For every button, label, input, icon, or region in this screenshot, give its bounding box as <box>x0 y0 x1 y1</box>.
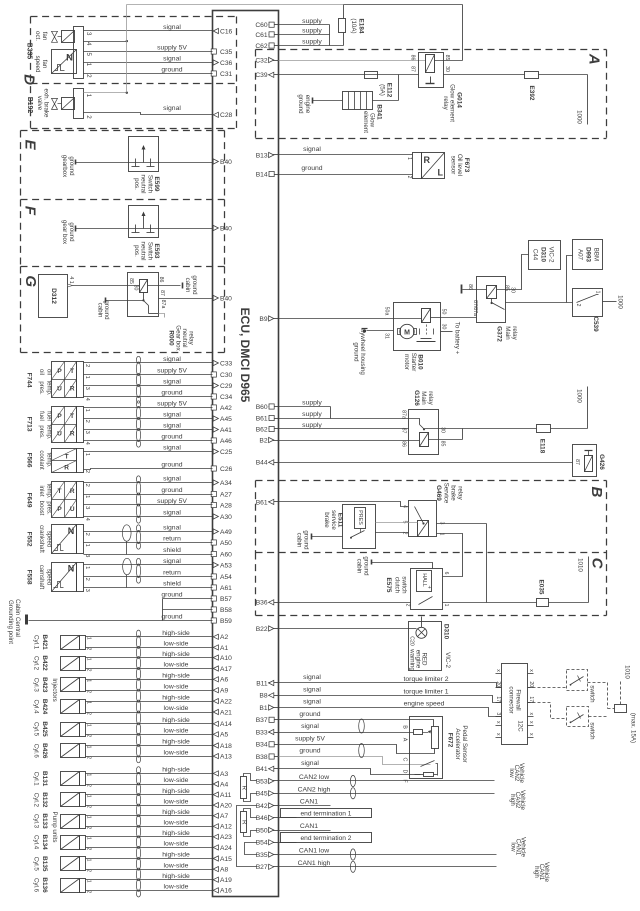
wires B423 high/low side <box>86 679 213 681</box>
svg-text:supply 5V: supply 5V <box>157 45 187 52</box>
svg-text:P: P <box>57 506 62 513</box>
wires F744 to ECU <box>84 362 213 364</box>
svg-text:1: 1 <box>443 604 449 607</box>
ECU pin B61 (right, y=418) <box>269 418 279 420</box>
svg-text:2: 2 <box>84 470 90 473</box>
twisted bundle marks injectors <box>136 630 140 637</box>
service brake relay G469 box <box>409 501 437 537</box>
svg-text:2: 2 <box>85 74 92 78</box>
bracket B42 down to B27 <box>237 806 257 867</box>
svg-text:ground: ground <box>299 711 320 718</box>
svg-text:ground: ground <box>297 94 304 114</box>
flywheel housing ground symbol <box>363 329 366 332</box>
ECU pin B1 (right, y=707.5) <box>269 707 279 709</box>
svg-text:2: 2 <box>84 484 90 487</box>
dashed wire pin20 to switch 1 <box>528 687 567 689</box>
svg-text:low: low <box>510 842 517 852</box>
wire B9 to B010 pin 50a <box>279 318 394 320</box>
svg-text:C29: C29 <box>220 383 233 390</box>
oil level sensor F673 box <box>422 153 445 179</box>
svg-text:A13: A13 <box>220 754 232 761</box>
fuse (max. 15A) <box>608 708 615 710</box>
svg-text:speed: speed <box>46 569 52 585</box>
ground gearbox symbol in box F <box>75 226 77 232</box>
F672 resistor <box>424 773 434 777</box>
wire E599 to B40 <box>159 162 213 164</box>
svg-text:ground: ground <box>68 222 75 242</box>
svg-text:x: x <box>495 669 501 672</box>
wires F713 to ECU <box>84 407 213 409</box>
svg-text:supply: supply <box>302 18 322 25</box>
svg-text:signal: signal <box>163 24 181 31</box>
svg-text:20: 20 <box>528 681 534 687</box>
cabin ground left of R000 <box>105 298 107 303</box>
svg-text:C35: C35 <box>220 49 233 56</box>
svg-text:85: 85 <box>444 55 450 61</box>
svg-text:T: T <box>70 368 74 375</box>
wire C539 pin1 to 1000 <box>603 301 617 303</box>
ECU pin B61 (right, y=501.9) <box>269 501 279 503</box>
svg-text:Service: Service <box>443 483 450 504</box>
svg-text:A50: A50 <box>220 540 232 547</box>
svg-text:C33: C33 <box>220 360 233 367</box>
svg-text:low-side: low-side <box>164 798 189 805</box>
svg-text:CAN1: CAN1 <box>300 799 318 806</box>
svg-text:x: x <box>495 733 501 736</box>
svg-text:warning: warning <box>409 648 416 671</box>
svg-text:cabin: cabin <box>296 533 303 548</box>
firewall connector right pin stubs and labels <box>528 673 534 675</box>
svg-text:clutch: clutch <box>394 577 401 594</box>
firewall connector left pin stubs and labels <box>496 673 502 675</box>
wire B41 signal to pin D <box>279 769 410 775</box>
wires B134 high/low side <box>86 836 213 838</box>
twisted pair marks CAN1 <box>350 849 355 860</box>
svg-text:CAN2 high: CAN2 high <box>298 786 331 793</box>
svg-text:1000: 1000 <box>576 110 583 124</box>
svg-text:2: 2 <box>84 533 90 536</box>
wire G372 85 to VIC-2 box <box>497 255 529 290</box>
svg-text:A: A <box>586 53 603 65</box>
svg-text:A1: A1 <box>220 645 228 652</box>
svg-text:B423: B423 <box>41 677 48 693</box>
svg-text:oct.: oct. <box>34 31 41 41</box>
wire to B58 <box>163 609 213 611</box>
svg-text:Cyl.6: Cyl.6 <box>33 878 40 893</box>
svg-text:cabin: cabin <box>97 303 104 318</box>
ECU pin A24 (left, y=847.4) <box>213 845 218 850</box>
injector/pump unit B423 solenoid symbol <box>61 678 80 692</box>
ECU pin A17 (left, y=668.5) <box>213 666 218 671</box>
svg-text:Cyl.5: Cyl.5 <box>33 722 40 737</box>
ECU pin A4 (left, y=784) <box>213 781 218 786</box>
ECU pin C34 (left, y=396.5) <box>211 394 216 399</box>
wire B42 CAN1 <box>279 805 331 807</box>
svg-text:85: 85 <box>440 441 446 447</box>
ECU pin B42 (right, y=805.5) <box>269 805 279 807</box>
main relay G372 box <box>477 277 506 323</box>
svg-text:A34: A34 <box>220 480 232 487</box>
cabin ground for E575 <box>371 560 373 565</box>
svg-text:G469: G469 <box>435 485 442 501</box>
svg-text:return: return <box>163 536 181 543</box>
svg-text:30: 30 <box>510 287 516 293</box>
F672 idle switch <box>415 774 421 776</box>
svg-text:pos.: pos. <box>133 178 140 190</box>
injector/pump unit B422 solenoid symbol <box>61 657 80 671</box>
svg-text:B40: B40 <box>220 225 232 232</box>
svg-text:G014: G014 <box>456 92 463 108</box>
svg-text:pres.: pres. <box>38 381 44 395</box>
svg-text:A60: A60 <box>220 551 232 558</box>
wire 1000 vertical near E118 <box>587 387 589 429</box>
ECU pin A21 (left, y=712) <box>213 709 218 714</box>
ECU pin B8 (right, y=695.3) <box>269 695 279 697</box>
svg-text:B13: B13 <box>256 152 268 159</box>
ECU pin A16 (left, y=890.3) <box>213 888 218 893</box>
G014 coil <box>426 55 435 73</box>
svg-text:G426: G426 <box>598 454 605 470</box>
R000 coil to 86 ground wire <box>148 285 181 287</box>
B010 contact <box>419 329 421 335</box>
svg-text:high-side: high-side <box>162 651 190 658</box>
ECU pin B38 (right, y=756.5) <box>269 756 279 758</box>
svg-text:supply: supply <box>302 422 322 429</box>
svg-text:cabin: cabin <box>356 559 363 574</box>
ECU pin B9 (right, y=318.5) <box>269 318 279 320</box>
svg-text:D310: D310 <box>540 247 547 262</box>
svg-text:B131: B131 <box>41 771 48 787</box>
wires F552 to ECU <box>84 531 213 533</box>
svg-text:T: T <box>70 413 74 420</box>
wire R000 pin 87 to B40 <box>159 298 213 300</box>
VIC-2 D310 C44 box <box>529 241 561 270</box>
svg-text:F744: F744 <box>26 372 33 387</box>
svg-text:B2: B2 <box>259 437 267 444</box>
svg-text:B421: B421 <box>41 634 48 650</box>
ECU pin A54 (left, y=576.5) <box>211 574 216 579</box>
svg-text:ground: ground <box>161 487 182 494</box>
ECU pin B60 (right, y=406.5) <box>269 406 279 408</box>
svg-text:F552: F552 <box>26 531 33 546</box>
svg-text:B9: B9 <box>259 316 267 323</box>
ground branch vertical to B57 B58 <box>162 599 164 621</box>
ECU pin A34 (left, y=482.5) <box>213 480 218 485</box>
svg-text:low-side: low-side <box>164 641 189 648</box>
G372 coil <box>487 286 497 299</box>
solenoid valve symbol B192 <box>62 98 75 110</box>
svg-text:ground: ground <box>161 434 182 441</box>
ECU pin A12 (left, y=826.3) <box>213 824 218 829</box>
svg-text:B44: B44 <box>256 460 268 467</box>
svg-text:85: 85 <box>504 285 510 291</box>
B010 motor M circle <box>400 324 414 338</box>
svg-text:A30: A30 <box>220 514 232 521</box>
svg-text:A8: A8 <box>220 867 228 874</box>
svg-text:1: 1 <box>85 746 91 749</box>
svg-text:BBM: BBM <box>593 248 600 261</box>
svg-text:B426: B426 <box>41 743 48 759</box>
svg-text:2: 2 <box>85 848 91 851</box>
injector/pump unit B426 solenoid symbol <box>61 744 80 758</box>
C539 connector box with switch <box>573 289 603 317</box>
ECU pin C61 (right, y=34.4) <box>269 34 279 36</box>
svg-text:end termination 1: end termination 1 <box>301 811 352 818</box>
ECU pin C30 (left, y=374.5) <box>211 372 216 377</box>
injector/pump unit B421 solenoid symbol <box>61 636 80 650</box>
ECU pin A10 (left, y=657.6) <box>213 655 218 660</box>
ECU pin B41 (right, y=768.8) <box>269 768 279 770</box>
svg-text:1: 1 <box>85 837 91 840</box>
svg-text:1: 1 <box>406 157 412 160</box>
ECU pin A45 (left, y=418.5) <box>213 416 218 421</box>
svg-text:end termination 2: end termination 2 <box>301 835 352 842</box>
ECU pin B62 (right, y=429) <box>269 428 279 430</box>
svg-text:A46: A46 <box>220 438 232 445</box>
svg-text:30: 30 <box>441 324 447 330</box>
svg-text:B335: B335 <box>25 43 32 60</box>
injector/pump unit B425 solenoid symbol <box>61 723 80 737</box>
svg-text:G126: G126 <box>413 390 420 406</box>
wire C61 supply <box>279 34 330 36</box>
G469 switch <box>415 507 424 524</box>
wires B136 high/low side <box>86 879 213 881</box>
ECU pin B46 (right, y=817.8) <box>269 817 279 819</box>
svg-text:high-side: high-side <box>162 630 190 637</box>
svg-text:G: G <box>22 275 39 287</box>
dashed box G frame <box>21 266 225 268</box>
svg-text:low-side: low-side <box>164 884 189 891</box>
ECU pin A23 (left, y=836.8) <box>213 834 218 839</box>
svg-text:C25: C25 <box>220 449 233 456</box>
wires B426 high/low side <box>86 745 213 747</box>
svg-text:low-side: low-side <box>164 841 189 848</box>
svg-text:oil: oil <box>46 369 52 375</box>
svg-text:B135: B135 <box>41 856 48 872</box>
injector/pump unit B136 solenoid symbol <box>61 879 80 893</box>
wire G014 pin30 to E392 and 1000 <box>444 74 525 76</box>
bracket B54 down to B35 <box>245 843 257 855</box>
svg-text:Cyl.1: Cyl.1 <box>33 635 40 650</box>
svg-text:B192: B192 <box>26 97 33 114</box>
junction C39/B341/G014-87 <box>398 75 400 101</box>
ECU pin C35 (left, y=51.5) <box>211 49 216 54</box>
svg-text:engine speed: engine speed <box>404 701 445 708</box>
svg-text:4: 4 <box>85 42 92 46</box>
injector/pump unit B133 solenoid symbol <box>61 815 80 829</box>
E575 switch arm <box>419 597 433 605</box>
svg-text:low: low <box>508 768 515 778</box>
svg-text:high-side: high-side <box>162 852 190 859</box>
ECU pin C36 (left, y=62.5) <box>213 60 218 65</box>
svg-text:B36: B36 <box>256 600 268 607</box>
wires B421 high/low side <box>86 636 213 638</box>
svg-text:B38: B38 <box>256 754 268 761</box>
svg-text:E392: E392 <box>528 86 535 101</box>
svg-text:A10: A10 <box>220 655 232 662</box>
dashed box F frame <box>21 199 225 201</box>
svg-text:connector: connector <box>508 686 515 713</box>
svg-text:ground: ground <box>161 67 182 74</box>
ECU pin B35 (right, y=854.5) <box>269 854 279 856</box>
svg-text:1: 1 <box>85 880 91 883</box>
svg-text:1: 1 <box>84 453 90 456</box>
ECU pin B40 (left, y=228) <box>213 225 218 230</box>
wires B135 high/low side <box>86 858 213 860</box>
svg-text:ground: ground <box>363 556 370 576</box>
ECU pin B54 (right, y=842.3) <box>269 842 279 844</box>
svg-text:ground: ground <box>191 275 198 295</box>
svg-text:A7: A7 <box>220 813 228 820</box>
svg-text:ground: ground <box>161 592 182 599</box>
R000 coil <box>140 280 148 293</box>
svg-text:Cyl.6: Cyl.6 <box>33 744 40 759</box>
square wave symbol in fan speed sensor <box>55 65 65 71</box>
svg-text:pres.: pres. <box>38 425 44 439</box>
svg-text:A41: A41 <box>220 427 232 434</box>
ECU pin A60 (left, y=554) <box>211 551 216 556</box>
wire G372 30 to C539 pin2 and BBM <box>506 302 573 304</box>
svg-text:A28: A28 <box>220 502 232 509</box>
F672 wiper <box>414 730 423 735</box>
ECU pin C33 (left, y=363) <box>213 360 218 365</box>
wire B61 supply to G126 87a <box>279 418 409 420</box>
G126 switch 87a <box>409 419 420 425</box>
fuse E184 <box>343 33 345 46</box>
dashed box B frame <box>256 480 607 482</box>
ECU pin B34 (right, y=744.3) <box>269 744 279 746</box>
svg-text:A23: A23 <box>220 834 232 841</box>
svg-text:1: 1 <box>85 94 92 98</box>
svg-text:F558: F558 <box>26 569 33 584</box>
svg-text:supply 5V: supply 5V <box>157 401 187 408</box>
svg-text:x: x <box>528 713 534 716</box>
G426 coil <box>585 456 593 472</box>
wire G469 pin5 to E511 <box>376 522 418 524</box>
svg-text:ground: ground <box>161 614 182 621</box>
oil level sensor F673 connector bar <box>413 153 422 179</box>
svg-text:high-side: high-side <box>162 873 190 880</box>
svg-text:gearbox: gearbox <box>61 155 68 178</box>
wire B2 to G126 coil 86 <box>279 440 420 442</box>
ECU pin A22 (left, y=701.1) <box>213 699 218 704</box>
svg-text:1: 1 <box>85 637 91 640</box>
fuse E035 <box>537 599 549 607</box>
svg-text:A61: A61 <box>220 585 232 592</box>
svg-text:B424: B424 <box>41 699 48 715</box>
svg-text:85: 85 <box>128 278 134 284</box>
svg-text:signal: signal <box>301 760 319 767</box>
svg-text:neutral: neutral <box>181 329 188 348</box>
ECU pin A50 (left, y=542.5) <box>211 540 216 545</box>
wire B34 supply 5V to pot bottom <box>279 745 435 754</box>
wire B22 to D310 lamp <box>279 628 409 630</box>
G426 box <box>573 445 597 477</box>
svg-text:Accelerator: Accelerator <box>454 728 461 759</box>
cabin ground right of R000 pin 86 <box>182 283 184 289</box>
svg-text:CAN1: CAN1 <box>300 823 318 830</box>
svg-text:3: 3 <box>495 712 501 715</box>
svg-text:30: 30 <box>133 285 139 291</box>
svg-text:x: x <box>528 721 534 724</box>
svg-text:(max. 15A): (max. 15A) <box>630 713 637 743</box>
svg-text:B132: B132 <box>41 792 48 808</box>
svg-text:valve: valve <box>36 96 43 111</box>
svg-text:A27: A27 <box>220 491 232 498</box>
svg-text:2: 2 <box>85 669 91 672</box>
svg-text:HALL: HALL <box>421 573 427 587</box>
wire B37 ground into F672 to pot top <box>279 720 434 727</box>
wire B335 pin4 to supply junction <box>84 41 127 43</box>
wires B425 high/low side <box>86 723 213 725</box>
svg-text:ground: ground <box>301 165 322 172</box>
svg-text:supply 5V: supply 5V <box>295 736 325 743</box>
wire G469 pin1 down to E575 pin6 <box>437 534 463 577</box>
svg-text:A45: A45 <box>220 416 232 423</box>
svg-text:B57: B57 <box>220 596 232 603</box>
svg-text:Cyl.2: Cyl.2 <box>33 656 40 671</box>
svg-text:signal: signal <box>163 558 181 565</box>
ECU pin B22 (right, y=628.5) <box>269 628 279 630</box>
svg-text:C39: C39 <box>255 72 268 79</box>
svg-text:30: 30 <box>440 427 446 433</box>
svg-text:x: x <box>495 721 501 724</box>
wire 1000 in box A <box>587 75 589 125</box>
svg-text:pos.: pos. <box>133 245 140 257</box>
svg-text:A2: A2 <box>220 634 228 641</box>
svg-text:B33: B33 <box>256 729 268 736</box>
svg-text:high-side: high-side <box>162 809 190 816</box>
svg-text:B133: B133 <box>41 813 48 829</box>
svg-text:ground: ground <box>303 530 310 550</box>
svg-text:D312: D312 <box>50 288 57 304</box>
svg-text:A07: A07 <box>577 249 584 261</box>
svg-text:signal: signal <box>163 379 181 386</box>
svg-text:torque limiter 1: torque limiter 1 <box>404 688 449 695</box>
ECU pin C62 (right, y=45.5) <box>269 45 279 47</box>
svg-text:B40: B40 <box>220 295 232 302</box>
svg-text:Cyl.4: Cyl.4 <box>33 835 40 850</box>
svg-text:signal: signal <box>303 674 321 681</box>
svg-text:5: 5 <box>85 53 92 57</box>
svg-text:inlet: inlet <box>38 485 44 496</box>
ECU pin B40 (left, y=161.5) <box>213 159 218 164</box>
wire to B57 <box>163 598 213 600</box>
svg-text:B59: B59 <box>220 618 232 625</box>
supply vertical wire from E184 top rail <box>126 5 128 93</box>
svg-text:B136: B136 <box>41 877 48 893</box>
ECU pin B2 (right, y=440) <box>269 440 279 442</box>
ECU pin A28 (left, y=505) <box>211 502 216 507</box>
ECU pin A49 (left, y=531.5) <box>213 529 218 534</box>
G469 coil <box>418 521 429 537</box>
svg-text:R: R <box>241 785 248 790</box>
svg-text:Gear box: Gear box <box>175 325 182 351</box>
svg-text:temp.: temp. <box>46 424 52 439</box>
svg-text:CAN1 low: CAN1 low <box>299 848 329 855</box>
svg-text:A6: A6 <box>220 677 228 684</box>
svg-text:87: 87 <box>159 290 165 296</box>
svg-text:3: 3 <box>85 32 92 36</box>
wires B132 high/low side <box>86 794 213 796</box>
svg-text:temp.: temp. <box>46 483 52 498</box>
wire G126 85 join <box>429 439 463 441</box>
wire grounding point to B59 <box>29 620 213 622</box>
svg-text:supply: supply <box>302 400 322 407</box>
svg-text:3: 3 <box>84 589 90 592</box>
ECU pin C28 (left, y=114.8) <box>213 112 218 117</box>
svg-text:signal: signal <box>163 56 181 63</box>
